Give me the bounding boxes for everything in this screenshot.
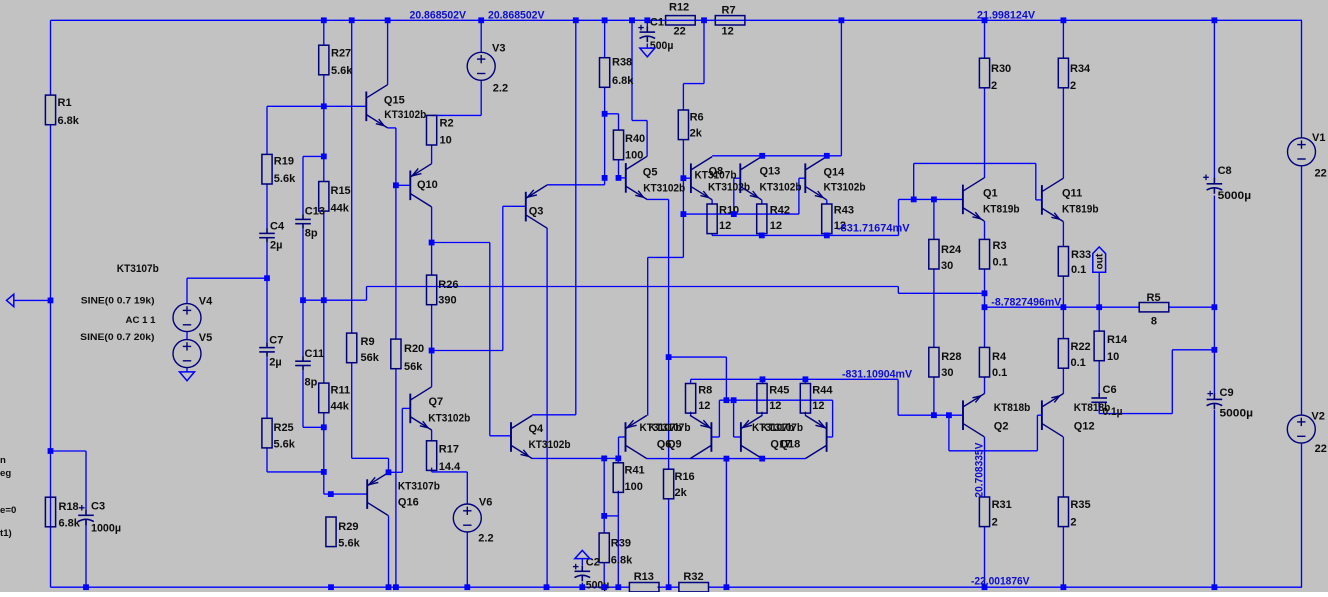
svg-text:20.868502V: 20.868502V xyxy=(488,9,545,21)
svg-text:12: 12 xyxy=(719,220,731,232)
wire R22 column xyxy=(1062,307,1064,497)
svg-text:R26: R26 xyxy=(438,279,458,291)
transistor Q16 xyxy=(367,473,388,516)
wire Q16 emitter / Q7 base link xyxy=(389,408,411,472)
svg-text:KT3107b: KT3107b xyxy=(398,481,440,493)
svg-text:R34: R34 xyxy=(1070,63,1091,75)
wire Q3 emitter column xyxy=(546,228,548,587)
svg-text:14.4: 14.4 xyxy=(439,461,461,473)
svg-text:KT3102b: KT3102b xyxy=(529,439,571,451)
svg-text:21.998124V: 21.998124V xyxy=(977,10,1036,22)
svg-text:R43: R43 xyxy=(834,205,854,217)
wire R16 column xyxy=(668,357,670,587)
wire base bus y214 xyxy=(683,178,805,214)
svg-text:KT3102b: KT3102b xyxy=(824,181,866,193)
svg-text:R7: R7 xyxy=(722,5,736,17)
wire Q11 collector wire xyxy=(1062,88,1064,179)
resistor R45 xyxy=(757,384,767,414)
svg-text:0.1: 0.1 xyxy=(993,256,1008,268)
transistor Q3 xyxy=(526,185,547,228)
transistor Q10 xyxy=(410,164,431,207)
svg-text:R27: R27 xyxy=(331,47,351,59)
capacitor C11 xyxy=(295,356,311,370)
wire R35 bottom xyxy=(1062,527,1064,588)
wire R19/C4/C7/R25 column xyxy=(267,106,324,472)
wire feedback long wire xyxy=(303,287,985,301)
voltage source V4 xyxy=(173,304,201,332)
wire R31 bottom xyxy=(984,527,986,588)
svg-text:R14: R14 xyxy=(1107,334,1128,346)
svg-text:R35: R35 xyxy=(1070,499,1090,511)
wire R18/C3 node xyxy=(51,451,87,587)
wire V3 to R2 xyxy=(432,20,482,115)
capacitor C7 xyxy=(259,343,275,357)
wire -831mV net xyxy=(691,379,934,415)
wire R6 feed xyxy=(683,20,704,214)
svg-text:6.8k: 6.8k xyxy=(611,555,633,567)
wire Q7 emitter stub xyxy=(431,430,433,441)
wire R44 bottom stub xyxy=(804,412,806,416)
resistor R1 xyxy=(45,95,55,125)
resistor R40 xyxy=(613,130,623,160)
transistor Q8 xyxy=(691,157,712,200)
transistor Q17b xyxy=(805,415,826,458)
resistor R28 xyxy=(929,347,939,377)
svg-text:KT819b: KT819b xyxy=(1062,204,1099,216)
svg-text:Q15: Q15 xyxy=(384,95,405,107)
svg-text:V6: V6 xyxy=(479,496,492,508)
svg-text:10: 10 xyxy=(440,135,452,147)
wire bottom -22V rail xyxy=(51,586,1303,588)
svg-text:2k: 2k xyxy=(690,127,703,139)
svg-text:R19: R19 xyxy=(274,156,294,168)
svg-text:56k: 56k xyxy=(361,352,380,364)
svg-text:12: 12 xyxy=(698,400,710,412)
svg-text:2µ: 2µ xyxy=(269,357,281,369)
wire C11 branch xyxy=(303,300,324,427)
transistor Q4 xyxy=(511,415,532,458)
svg-text:C7: C7 xyxy=(269,335,283,347)
wire C1 leads xyxy=(646,20,648,48)
svg-text:R25: R25 xyxy=(274,422,294,434)
svg-text:AC 1 1: AC 1 1 xyxy=(126,315,157,326)
svg-text:C1: C1 xyxy=(650,17,664,29)
svg-text:8: 8 xyxy=(1151,316,1157,328)
svg-text:R28: R28 xyxy=(941,351,961,363)
svg-text:R32: R32 xyxy=(683,571,703,583)
svg-text:Q12: Q12 xyxy=(1074,421,1095,433)
wire Q1 collector wire xyxy=(984,88,986,178)
svg-text:8p: 8p xyxy=(305,376,318,388)
resistor R16 xyxy=(664,469,674,499)
resistor R19 xyxy=(262,154,272,184)
wire R42 top stub xyxy=(761,200,763,204)
svg-text:-22.001876V: -22.001876V xyxy=(971,575,1030,587)
svg-text:SINE(0 0.7 19k): SINE(0 0.7 19k) xyxy=(81,295,155,306)
svg-text:390: 390 xyxy=(438,294,456,306)
wire R39 leads xyxy=(603,516,605,587)
svg-text:R3: R3 xyxy=(993,240,1007,252)
voltage source V5 xyxy=(173,340,201,368)
svg-text:8p: 8p xyxy=(305,228,318,240)
resistor R24 xyxy=(929,239,939,269)
wire rail to Q4 collector column xyxy=(532,20,576,415)
svg-text:0.1: 0.1 xyxy=(1071,357,1086,369)
svg-text:R41: R41 xyxy=(625,465,645,477)
resistor R31 xyxy=(979,497,989,527)
svg-text:-831.71674mV: -831.71674mV xyxy=(837,222,910,234)
svg-text:C13: C13 xyxy=(305,205,325,217)
wire Q17/Q18 base bus y400 xyxy=(669,357,833,437)
svg-text:KT3102b: KT3102b xyxy=(708,182,750,194)
wire R27/R15/R11 column xyxy=(324,20,367,494)
resistor R20 xyxy=(391,339,401,369)
transistor Q18 xyxy=(741,415,762,458)
transistor Q12 xyxy=(1042,394,1063,437)
wire Q15 emitter / R20 column xyxy=(388,128,396,587)
svg-text:22: 22 xyxy=(1315,168,1327,180)
input port flag xyxy=(7,294,14,306)
wire Q15 base wire xyxy=(267,105,366,107)
resistor R13 xyxy=(629,583,659,592)
svg-text:out: out xyxy=(1095,253,1106,269)
resistor R29 xyxy=(326,517,336,547)
svg-text:R33: R33 xyxy=(1071,249,1091,261)
svg-text:Q14: Q14 xyxy=(824,166,846,178)
svg-text:-831.10904mV: -831.10904mV xyxy=(842,369,913,381)
svg-text:Q18: Q18 xyxy=(780,439,801,451)
svg-text:Q13: Q13 xyxy=(760,166,781,178)
voltage source V3 xyxy=(467,52,495,80)
resistor R32 xyxy=(679,583,709,592)
svg-text:e=0: e=0 xyxy=(0,505,16,516)
resistor R14 xyxy=(1094,331,1104,361)
svg-text:R17: R17 xyxy=(439,444,459,456)
svg-text:n: n xyxy=(0,455,6,466)
resistor R22 xyxy=(1058,339,1068,369)
wire collector bus y458 right xyxy=(647,459,806,588)
wire Q3 upper wire xyxy=(547,178,605,185)
svg-text:5.6k: 5.6k xyxy=(331,65,353,77)
wire output node y307 xyxy=(985,306,1215,308)
wire R8 bottom stub xyxy=(690,412,692,416)
wire Q10c to Q4 base xyxy=(432,243,511,436)
svg-text:V4: V4 xyxy=(199,295,213,307)
wire C13 branch xyxy=(303,156,324,300)
svg-text:R20: R20 xyxy=(404,343,424,355)
capacitor C9 xyxy=(1207,391,1223,410)
svg-text:KT3102b: KT3102b xyxy=(643,182,685,194)
resistor R3 xyxy=(979,239,989,269)
wire R17/V6 link xyxy=(432,468,468,588)
wire V4 top wire xyxy=(187,278,267,372)
transistor Q2 xyxy=(963,394,984,437)
wire Q2/Q12 base link xyxy=(934,415,1042,451)
svg-text:R2: R2 xyxy=(440,117,454,129)
svg-text:20.868502V: 20.868502V xyxy=(410,9,467,21)
svg-text:Q4: Q4 xyxy=(529,423,545,435)
wire Q10 base stub xyxy=(396,184,410,186)
wire Q5 collector wire xyxy=(632,20,647,156)
wire R45 bottom stub xyxy=(761,412,763,416)
svg-text:12: 12 xyxy=(770,220,782,232)
resistor R4 xyxy=(979,347,989,377)
voltage source V2 xyxy=(1287,415,1315,443)
svg-text:R8: R8 xyxy=(698,385,712,397)
wire Q5 emitter wire xyxy=(647,199,669,357)
resistor R2 xyxy=(427,115,437,145)
svg-text:R39: R39 xyxy=(611,538,631,550)
capacitor C6 xyxy=(1091,393,1107,407)
resistor R42 xyxy=(757,204,767,234)
capacitor C8 xyxy=(1203,175,1222,194)
svg-text:Q10: Q10 xyxy=(417,179,438,191)
svg-text:KT818b: KT818b xyxy=(1074,402,1111,414)
svg-text:5.6k: 5.6k xyxy=(338,537,360,549)
svg-text:V3: V3 xyxy=(492,43,505,55)
svg-text:eg: eg xyxy=(0,468,11,479)
svg-text:0.1: 0.1 xyxy=(1071,264,1086,276)
transistor Q15 xyxy=(366,85,387,128)
svg-text:R40: R40 xyxy=(625,133,645,145)
svg-text:22: 22 xyxy=(1315,443,1327,455)
resistor R35 xyxy=(1058,497,1068,527)
svg-text:Q9: Q9 xyxy=(667,439,682,451)
svg-text:R13: R13 xyxy=(634,571,654,583)
svg-text:R24: R24 xyxy=(941,244,962,256)
svg-text:V5: V5 xyxy=(199,332,212,344)
svg-text:12: 12 xyxy=(722,25,734,37)
resistor R26 xyxy=(427,275,437,305)
svg-text:C6: C6 xyxy=(1103,384,1117,396)
svg-text:R44: R44 xyxy=(812,385,833,397)
wire R34 top xyxy=(1062,20,1064,58)
wire left column xyxy=(50,20,52,587)
wire collector bus y156 xyxy=(712,20,841,156)
wire R6 extension to Q6/Q9 emitter xyxy=(648,214,684,416)
transistor Q11 xyxy=(1042,178,1063,221)
transistor Q6 Q9 pair xyxy=(626,415,647,458)
svg-text:R15: R15 xyxy=(331,185,351,197)
svg-text:C3: C3 xyxy=(91,501,105,513)
svg-text:2: 2 xyxy=(1070,517,1076,529)
svg-text:2.2: 2.2 xyxy=(478,533,493,545)
svg-text:R12: R12 xyxy=(669,1,689,13)
svg-text:22: 22 xyxy=(674,25,686,37)
resistor R34 xyxy=(1058,58,1068,88)
svg-text:KT818b: KT818b xyxy=(994,402,1031,414)
wire Q10 collector wire xyxy=(431,207,433,243)
svg-text:Q11: Q11 xyxy=(1062,188,1082,200)
resistor R12 xyxy=(666,16,696,25)
svg-text:KT819b: KT819b xyxy=(983,204,1020,216)
svg-text:100: 100 xyxy=(625,481,643,493)
svg-text:t1): t1) xyxy=(0,528,12,539)
resistor R18 xyxy=(45,497,55,527)
svg-text:C9: C9 xyxy=(1220,387,1234,399)
wire R3/R4 column xyxy=(984,269,986,497)
svg-text:C11: C11 xyxy=(305,348,325,360)
svg-text:Q5: Q5 xyxy=(643,166,658,178)
wire top +22V rail xyxy=(51,19,1303,21)
svg-text:44k: 44k xyxy=(331,203,350,215)
svg-text:KT3102b: KT3102b xyxy=(428,413,470,425)
resistor R43 xyxy=(822,204,832,234)
svg-text:6.8k: 6.8k xyxy=(58,115,80,127)
wire Q11 emitter wire xyxy=(1062,222,1064,247)
svg-text:6.8k: 6.8k xyxy=(59,518,81,530)
svg-text:R16: R16 xyxy=(675,471,695,483)
svg-text:Q7: Q7 xyxy=(429,396,444,408)
svg-text:20.708335V: 20.708335V xyxy=(973,442,985,498)
svg-text:R29: R29 xyxy=(338,521,358,533)
svg-text:R9: R9 xyxy=(361,336,375,348)
svg-text:2k: 2k xyxy=(675,487,688,499)
svg-text:5000µ: 5000µ xyxy=(1218,190,1252,202)
wire emitter bus y235 xyxy=(712,199,898,235)
svg-text:R18: R18 xyxy=(59,501,79,513)
resistor R25 xyxy=(262,418,272,448)
wire R9 column xyxy=(352,20,389,472)
resistor R5 xyxy=(1139,303,1169,312)
resistor R10 xyxy=(707,204,717,234)
wire Q15 collector wire xyxy=(387,20,389,84)
resistor R27 xyxy=(319,45,329,75)
voltage source V6 xyxy=(453,504,481,532)
svg-text:5000µ: 5000µ xyxy=(1220,408,1254,420)
svg-text:44k: 44k xyxy=(331,401,350,413)
wire R30 top xyxy=(984,20,986,58)
svg-text:2: 2 xyxy=(1070,80,1076,92)
svg-text:KT3107b: KT3107b xyxy=(761,422,803,434)
wire right V1-V2 column xyxy=(1301,20,1303,587)
svg-text:SINE(0 0.7 20k): SINE(0 0.7 20k) xyxy=(80,332,154,343)
svg-text:R42: R42 xyxy=(770,205,790,217)
svg-text:2.2: 2.2 xyxy=(493,83,508,95)
svg-text:KT3102b: KT3102b xyxy=(760,182,802,194)
svg-text:Q1: Q1 xyxy=(983,188,998,200)
svg-text:5.6k: 5.6k xyxy=(274,438,296,450)
svg-text:R31: R31 xyxy=(992,499,1012,511)
wire Q16 collector wire xyxy=(388,516,390,587)
wire R2 to Q10 xyxy=(431,145,433,164)
svg-text:Q2: Q2 xyxy=(994,421,1009,433)
svg-text:V1: V1 xyxy=(1312,132,1325,144)
svg-text:KT3102b: KT3102b xyxy=(384,109,426,121)
svg-text:KT3107b: KT3107b xyxy=(649,422,691,434)
svg-text:56k: 56k xyxy=(404,361,423,373)
resistor R38 xyxy=(600,58,610,88)
svg-text:6.8k: 6.8k xyxy=(612,75,634,87)
wire Q1 emitter wire xyxy=(984,221,986,239)
svg-text:12: 12 xyxy=(812,400,824,412)
ground above C2 xyxy=(575,550,590,558)
svg-text:R22: R22 xyxy=(1071,341,1091,353)
resistor R41 xyxy=(613,463,623,493)
svg-text:KT3107b: KT3107b xyxy=(117,263,159,275)
resistor R7 xyxy=(715,16,745,25)
resistor R44 xyxy=(800,384,810,414)
wire R38/R40 node xyxy=(605,20,626,178)
svg-text:R1: R1 xyxy=(58,97,72,109)
wire out flag wire xyxy=(1098,272,1100,307)
svg-text:1000µ: 1000µ xyxy=(91,522,121,534)
wire R26 to Q3 base xyxy=(432,206,526,350)
resistor R33 xyxy=(1058,247,1068,277)
transistor Q5 xyxy=(626,156,647,199)
svg-text:Q3: Q3 xyxy=(529,205,544,217)
transistor Q1 xyxy=(963,178,984,221)
capacitor C13 xyxy=(295,214,311,228)
transistor Q7 xyxy=(410,387,431,430)
svg-text:2: 2 xyxy=(992,517,998,529)
svg-text:C8: C8 xyxy=(1218,165,1232,177)
transistor Q13 xyxy=(740,157,761,200)
capacitor C3 xyxy=(78,505,94,525)
wire R10 top stub xyxy=(711,200,713,204)
wire R14/C6 branch xyxy=(1099,307,1214,413)
svg-text:2: 2 xyxy=(991,80,997,92)
resistor R17 xyxy=(427,441,437,471)
wire C8/C9 column xyxy=(1213,20,1215,587)
svg-text:12: 12 xyxy=(769,400,781,412)
resistor R6 xyxy=(678,110,688,140)
ground below C1 xyxy=(640,48,655,57)
wire R26 branch xyxy=(431,243,433,351)
out port flag xyxy=(1093,247,1106,272)
svg-text:R38: R38 xyxy=(612,57,632,69)
wire R24/R28 column xyxy=(933,199,935,415)
transistor Q17 xyxy=(690,415,711,458)
ground below V5 xyxy=(180,372,195,381)
capacitor C2 xyxy=(573,564,590,582)
capacitor C1 xyxy=(638,25,655,42)
svg-text:R11: R11 xyxy=(331,385,351,397)
resistor R11 xyxy=(319,383,329,413)
capacitor C4 xyxy=(259,228,275,242)
svg-text:10: 10 xyxy=(1107,351,1119,363)
svg-text:Q16: Q16 xyxy=(398,496,419,508)
resistor R8 xyxy=(686,384,696,414)
wire input wire xyxy=(14,299,51,301)
svg-text:0.1: 0.1 xyxy=(992,367,1007,379)
wire Q7 collector stub xyxy=(431,351,433,387)
svg-text:C4: C4 xyxy=(270,220,285,232)
wire R33 bottom xyxy=(1062,276,1064,307)
wire driver node y199 xyxy=(899,163,1042,200)
svg-text:R6: R6 xyxy=(690,112,704,124)
voltage source V1 xyxy=(1288,138,1316,166)
svg-text:R45: R45 xyxy=(769,385,789,397)
svg-text:R5: R5 xyxy=(1147,292,1161,304)
wire R43 top stub xyxy=(826,200,828,204)
svg-text:-8.7827496mV: -8.7827496mV xyxy=(991,296,1062,308)
wire left bus y458 xyxy=(532,437,625,587)
svg-text:30: 30 xyxy=(941,260,953,272)
svg-text:R4: R4 xyxy=(992,351,1007,363)
resistor R30 xyxy=(979,58,989,88)
resistor R15 xyxy=(319,182,329,212)
resistor R9 xyxy=(347,333,357,363)
svg-text:5.6k: 5.6k xyxy=(274,173,296,185)
svg-text:2µ: 2µ xyxy=(270,239,282,251)
svg-text:V2: V2 xyxy=(1311,410,1324,422)
svg-text:30: 30 xyxy=(941,367,953,379)
svg-text:R30: R30 xyxy=(991,63,1011,75)
resistor R39 xyxy=(599,533,609,563)
svg-text:KT3107b: KT3107b xyxy=(695,170,737,182)
wire C2 leads xyxy=(581,559,583,588)
